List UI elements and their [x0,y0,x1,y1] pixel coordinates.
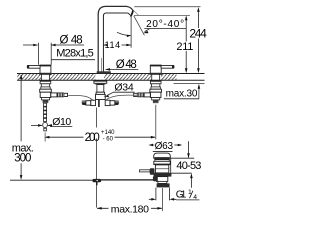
countertop bottom line [17,79,205,81]
connection level line [10,179,93,181]
center tail below tee [98,100,100,108]
svg-text:M28x1,5: M28x1,5 [56,48,94,60]
svg-text:211: 211 [176,41,193,53]
countertop hatch band [17,74,176,81]
dim G1 1/4 [149,198,176,200]
tee body [40,92,51,97]
arc arrow [117,32,131,35]
angle lines 20-40 [134,16,145,36]
svg-text:244: 244 [189,26,207,40]
left valve lever [27,65,40,68]
waste knob ring [155,160,169,162]
countertop top line [17,72,205,74]
hole for right valve [151,74,161,81]
pop-up rod [101,179,153,181]
spout under-counter stack [82,81,120,108]
right valve under-counter assembly (mirror of left) [134,74,162,103]
spout/rod centerline down [95,108,97,208]
nut [94,81,107,84]
svg-text:40-53: 40-53 [176,160,201,172]
hole for spout [95,74,104,81]
ghost tip line [133,10,139,15]
hole for left valve [41,74,50,81]
G1 1/4 tube [156,188,170,201]
dim max.180 [97,207,162,209]
dim 40-53 [170,158,194,173]
dim Ø48 left: extension lines [38,43,51,65]
dim Ø48 left: line [23,44,84,46]
svg-text:max.30: max.30 [166,88,198,99]
tee center [96,94,106,99]
hose right valve to tee [106,95,136,100]
waste flange [154,161,170,164]
shank [97,85,104,93]
hose left valve to tee [68,95,93,101]
spout riser tube [98,6,127,73]
right arm: nut+hex+serr [105,100,110,105]
svg-text:Ø: Ø [60,34,69,46]
clamp bar [157,183,170,187]
waste: Ø63 label [148,144,153,147]
right valve base plate [150,73,163,75]
svg-text:+140: +140 [101,130,115,136]
waste centerline [161,188,163,211]
dim 211 [185,17,187,72]
svg-text:- 60: - 60 [103,137,114,143]
right valve centerline down [155,105,157,140]
svg-text:300: 300 [14,152,31,164]
section [41,84,49,87]
top extension line [134,6,200,8]
svg-text:200: 200 [85,132,100,144]
waste lower flange (dark) [154,173,172,177]
left valve under-counter assembly [40,74,68,103]
svg-text:48: 48 [71,34,83,46]
clamp small [158,181,167,183]
svg-text:Ø63: Ø63 [155,141,174,152]
waste lever rod [140,170,151,172]
left arm: nut+hex+serr [91,100,96,105]
rod right knuckle [153,176,158,181]
waste lever knuckle [150,168,155,175]
left valve centerline extension [44,133,46,142]
right valve lever [161,65,174,68]
section 2 [41,87,50,89]
left valve base plate [39,73,52,75]
svg-text:max.180: max.180 [111,203,149,215]
shank in counter [42,74,50,80]
tee top [40,89,52,92]
nipple tip [64,93,68,96]
dim 244 [197,9,199,72]
rod clevis [93,179,102,182]
spout outlet mouth [126,6,138,16]
spout escutcheon [97,71,111,73]
left valve handle block [40,65,51,73]
extension line outlet [130,16,132,47]
svg-text:G1: G1 [176,190,187,201]
collar [96,92,105,94]
Ø10 pipe bead chain below left valve [43,103,48,131]
side nipple serration [58,93,63,97]
ball housing [156,177,167,182]
serrated tail [43,100,49,102]
waste knob dome [154,153,171,158]
max thickness line right [174,83,205,85]
mounting nut [40,81,51,84]
side nipple hex [51,93,57,97]
bottom section [41,98,49,100]
right valve handle block [150,65,161,73]
washer [95,83,105,84]
waste body [155,165,168,173]
